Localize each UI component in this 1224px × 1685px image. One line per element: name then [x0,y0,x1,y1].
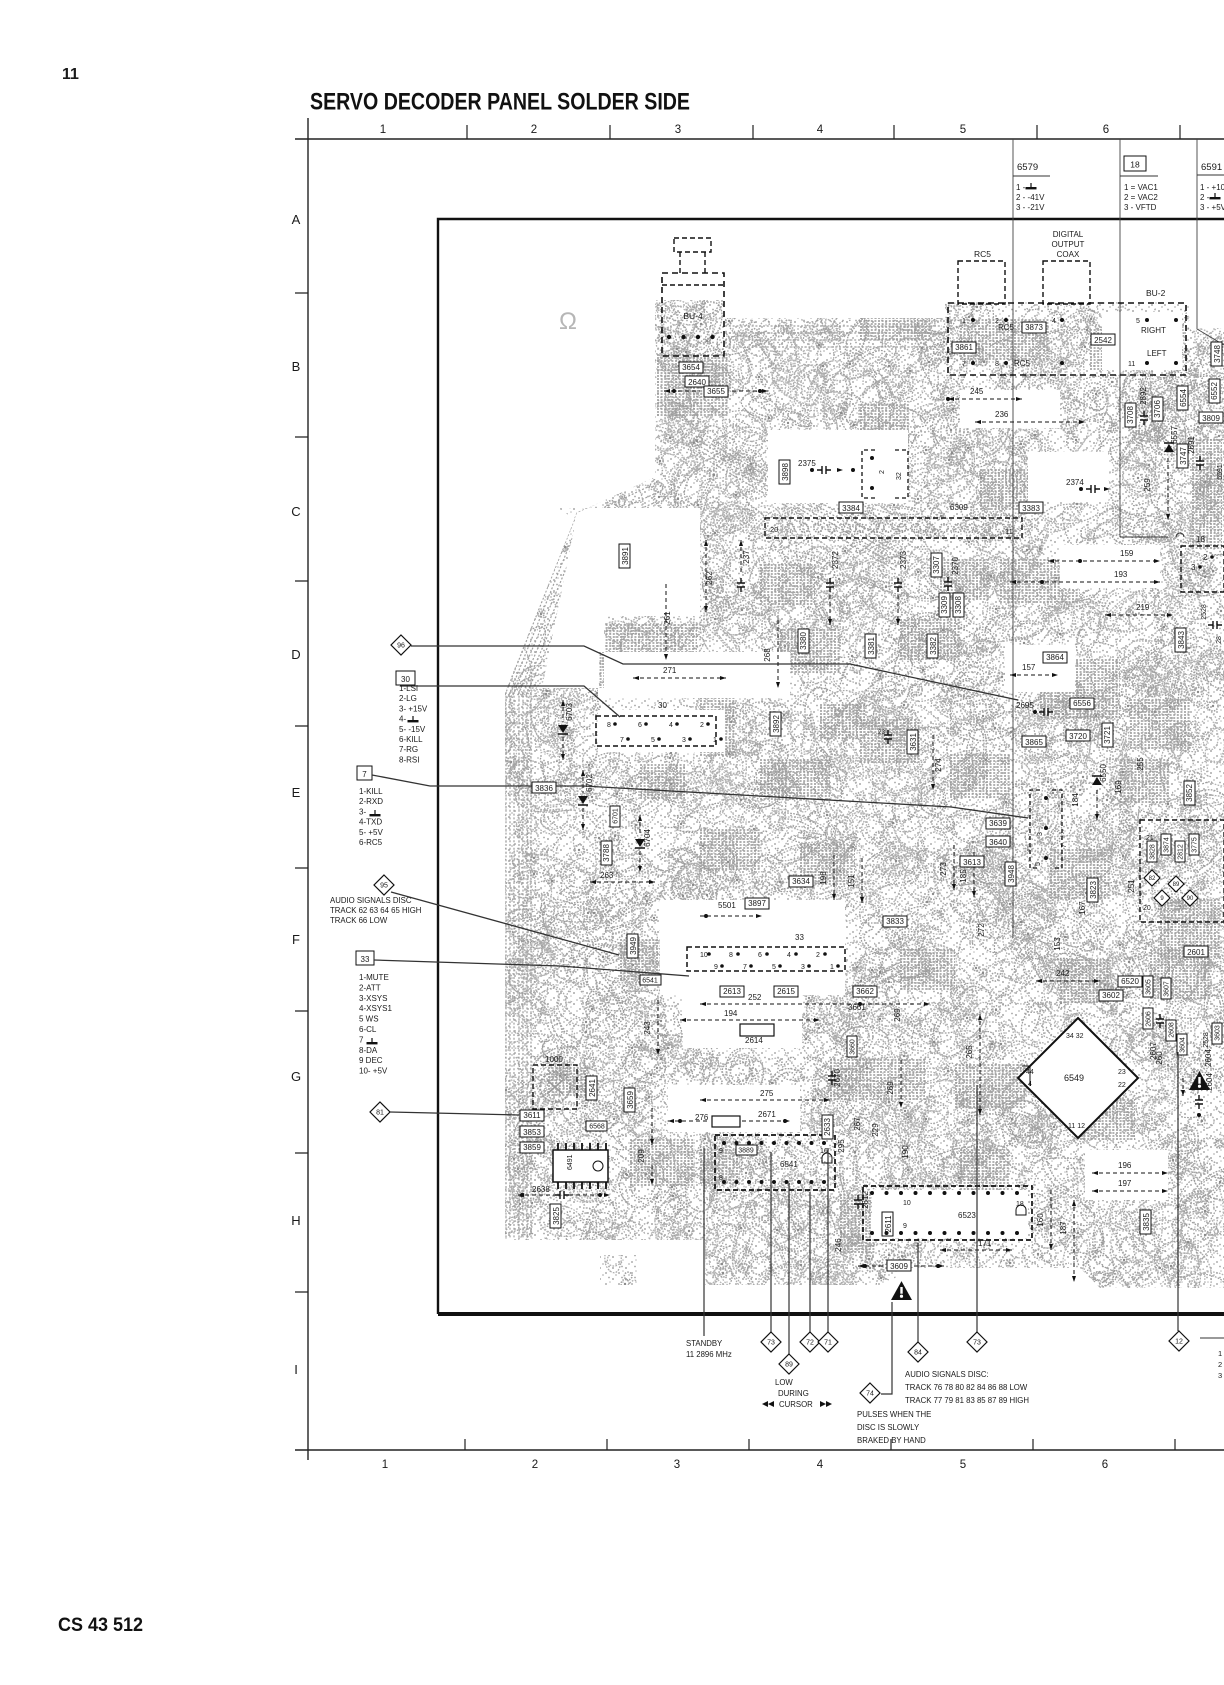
svg-text:2374: 2374 [1066,478,1084,487]
svg-text:2: 2 [1218,1360,1222,1369]
svg-text:3613: 3613 [963,858,981,867]
svg-text:263: 263 [600,871,614,880]
svg-text:B: B [292,359,301,374]
svg-text:C: C [291,504,300,519]
svg-text:271: 271 [663,666,677,675]
svg-text:PULSES WHEN THE: PULSES WHEN THE [857,1410,931,1419]
resistor 3381 [865,634,876,658]
capacitor at 1199 1098 [1195,1095,1203,1109]
svg-text:2691: 2691 [1187,436,1196,454]
svg-text:3825: 3825 [552,1207,561,1225]
svg-text:CS 43 512: CS 43 512 [58,1615,143,1636]
svg-text:3307: 3307 [932,556,941,574]
svg-text:7: 7 [359,1035,364,1044]
svg-text:LEFT: LEFT [1147,349,1167,358]
resistor 3380 [798,629,809,653]
svg-text:3639: 3639 [989,819,1007,828]
node 74 diamond [860,1383,880,1403]
svg-text:1: 1 [382,1459,388,1471]
connector table 7 [357,766,372,780]
svg-text:274: 274 [934,758,943,772]
svg-text:DISC IS SLOWLY: DISC IS SLOWLY [857,1423,920,1432]
svg-text:TRACK 77 79 81 83 85 87 89 HIG: TRACK 77 79 81 83 85 87 89 HIGH [905,1396,1029,1405]
svg-text:2: 2 [1203,553,1208,562]
svg-text:6: 6 [1103,124,1109,136]
svg-text:2: 2 [531,124,537,136]
diode 6704 [635,839,645,847]
svg-text:90: 90 [1187,896,1194,902]
svg-text:2611: 2611 [884,1215,893,1233]
svg-text:A: A [292,212,301,227]
svg-text:2: 2 [816,952,820,959]
resistor 3603 [1212,1023,1222,1044]
svg-text:6568: 6568 [589,1124,605,1131]
connector table 18 [1119,139,1121,537]
right edge partial table [1200,1337,1224,1339]
svg-text:259: 259 [1143,478,1152,492]
resistor 3843 [1175,628,1186,652]
svg-text:6: 6 [638,722,642,729]
svg-text:4-: 4- [399,715,406,724]
svg-text:2608: 2608 [1169,1022,1176,1038]
IC 6523 [863,1186,1032,1240]
svg-text:3-: 3- [359,807,366,816]
svg-text:171: 171 [978,1239,992,1248]
svg-text:3708: 3708 [1126,406,1135,424]
svg-text:3706: 3706 [1153,400,1162,418]
resistor 3825 [550,1204,561,1228]
svg-text:169: 169 [1114,780,1123,794]
svg-text:1 -: 1 - [1016,183,1026,192]
leader to 73 [770,1152,772,1333]
svg-text:209: 209 [637,1149,646,1163]
svg-text:267: 267 [853,1117,862,1131]
resistor 3721 [1102,723,1113,747]
svg-text:187: 187 [1059,1221,1068,1235]
svg-text:3: 3 [801,964,805,971]
svg-text:273: 273 [939,862,948,876]
svg-text:TRACK 62 63 64 65 HIGH: TRACK 62 63 64 65 HIGH [330,906,421,915]
resistor 6568 [586,1121,607,1131]
svg-text:3384: 3384 [842,504,860,513]
svg-text:3: 3 [682,737,686,744]
svg-text:245: 245 [970,387,984,396]
board outline [438,219,1224,1314]
svg-text:3: 3 [1037,832,1044,836]
resistor 3631 [907,730,918,754]
resistor 3639 [986,818,1010,829]
svg-text:3382: 3382 [929,637,938,655]
svg-text:2670: 2670 [833,1069,842,1087]
resistor 3747 [1177,444,1188,468]
resistor 3382 [927,634,938,658]
svg-text:DIGITAL: DIGITAL [1053,230,1084,239]
svg-text:6701: 6701 [613,808,620,824]
diode 6550 [1092,777,1102,785]
svg-text:6541: 6541 [642,978,658,985]
connector table 30 [396,671,415,685]
wire from table 30 [400,686,620,717]
resistor 2611 [882,1212,893,1236]
svg-text:18: 18 [1196,535,1205,544]
resistor 3948 [1005,862,1016,886]
svg-text:H: H [291,1213,300,1228]
svg-text:268: 268 [763,648,772,662]
svg-text:2641: 2641 [588,1079,597,1097]
svg-text:2633: 2633 [823,1118,832,1136]
resistor 6701 [610,806,620,827]
svg-text:72: 72 [806,1340,814,1347]
svg-text:7: 7 [620,737,624,744]
svg-text:I: I [294,1362,298,1377]
svg-text:6557: 6557 [1170,426,1179,444]
svg-text:1000: 1000 [545,1055,563,1064]
svg-text:1: 1 [830,964,834,971]
resistor 3384 [839,502,863,513]
svg-text:7: 7 [962,361,966,368]
connector table 33 [356,951,374,965]
svg-text:1: 1 [962,318,966,325]
svg-text:2614: 2614 [745,1036,763,1045]
resistor 6556 [1070,698,1094,709]
resistor 3864 [1043,652,1067,663]
svg-text:6579: 6579 [1017,162,1038,173]
svg-text:RIGHT: RIGHT [1141,326,1166,335]
svg-text:242: 242 [1056,969,1070,978]
svg-text:11: 11 [1128,361,1135,368]
svg-text:6591: 6591 [1201,162,1222,173]
svg-text:95: 95 [380,883,388,890]
svg-text:1-LSI: 1-LSI [399,684,418,693]
svg-text:96: 96 [397,643,405,650]
svg-text:28: 28 [1216,636,1223,644]
svg-text:OUTPUT: OUTPUT [1052,240,1085,249]
svg-text:6591: 6591 [1217,464,1224,480]
svg-text:3383: 3383 [1022,504,1040,513]
node 12 diamond [1169,1331,1189,1351]
diode 6702 [578,796,588,804]
svg-text:9 DEC: 9 DEC [359,1056,383,1065]
svg-text:6704: 6704 [643,829,652,847]
svg-text:2373: 2373 [899,551,908,569]
svg-text:1-KILL: 1-KILL [359,787,383,796]
svg-text:3864: 3864 [1046,653,1064,662]
svg-text:7: 7 [362,770,367,779]
svg-text:6702: 6702 [585,774,594,792]
svg-text:3892: 3892 [772,715,781,733]
svg-text:151: 151 [847,874,856,888]
node 84 diamond [908,1342,928,1362]
svg-text:229: 229 [871,1123,880,1137]
resistor 3873 [1022,322,1046,333]
resistor 3706 [1152,397,1163,421]
svg-text:1: 1 [713,737,717,744]
resistor 3659 [624,1088,635,1112]
svg-text:2: 2 [700,722,704,729]
svg-text:159: 159 [1120,549,1134,558]
leader to 74 [881,1302,892,1394]
svg-text:1: 1 [1218,1349,1222,1358]
svg-text:246: 246 [834,1238,843,1252]
svg-text:2 = VAC2: 2 = VAC2 [1124,193,1158,202]
svg-text:167: 167 [1078,901,1087,915]
svg-text:SERVO DECODER PANEL SOLDER SID: SERVO DECODER PANEL SOLDER SIDE [310,89,690,116]
svg-text:E: E [292,785,301,800]
svg-text:1: 1 [380,124,386,136]
svg-text:2 -: 2 - [1200,193,1210,202]
wire from table 33 [374,960,689,976]
svg-text:3634: 3634 [792,877,810,886]
svg-text:20: 20 [1143,905,1151,912]
svg-text:11: 11 [1005,527,1013,536]
svg-text:2671: 2671 [758,1110,776,1119]
svg-text:8-DA: 8-DA [359,1046,378,1055]
svg-text:D: D [291,647,300,662]
resistor 3897 [745,898,769,909]
resistor 3654 [679,362,703,373]
svg-text:3823: 3823 [1089,881,1098,899]
resistor 6520 [1118,976,1142,987]
svg-text:269: 269 [886,1081,895,1095]
svg-text:9: 9 [714,964,718,971]
svg-text:2-ATT: 2-ATT [359,983,381,992]
svg-text:3660: 3660 [850,1039,857,1055]
svg-text:3852: 3852 [1185,784,1194,802]
svg-text:1-MUTE: 1-MUTE [359,973,389,982]
svg-text:10: 10 [903,1200,911,1207]
svg-text:265: 265 [965,1045,974,1059]
svg-text:272: 272 [977,923,986,937]
svg-text:6541: 6541 [780,1160,798,1169]
svg-text:255: 255 [1136,757,1145,771]
svg-text:12: 12 [1175,1339,1183,1346]
svg-text:5: 5 [1136,318,1140,325]
svg-text:251: 251 [1127,879,1136,893]
resistor 3655 [704,386,728,397]
svg-text:21: 21 [1146,835,1154,842]
svg-text:DURING: DURING [778,1389,809,1398]
svg-text:AUDIO SIGNALS DISC:: AUDIO SIGNALS DISC: [905,1370,989,1379]
resistor 3949 [627,934,638,958]
svg-text:190: 190 [901,1145,910,1159]
svg-text:30: 30 [658,701,667,710]
svg-text:82: 82 [1149,876,1156,882]
svg-text:3: 3 [1218,1371,1222,1380]
svg-text:6: 6 [758,952,762,959]
resistor 2606 [1143,1008,1153,1029]
svg-text:2604: 2604 [1205,1073,1214,1091]
svg-text:3609: 3609 [890,1262,908,1271]
svg-text:3788: 3788 [602,844,611,862]
svg-text:3835: 3835 [1142,1213,1151,1231]
svg-text:2892: 2892 [1139,387,1148,405]
svg-text:3720: 3720 [1069,732,1087,741]
resistor 2542 [1091,334,1115,345]
svg-text:2372: 2372 [831,551,840,569]
svg-text:269: 269 [893,1008,902,1022]
resistor 3874 [1161,834,1171,855]
svg-text:2615: 2615 [777,987,795,996]
svg-text:3602: 3602 [1102,991,1120,1000]
svg-text:2370: 2370 [951,557,960,575]
svg-text:STANDBY: STANDBY [686,1339,723,1348]
svg-text:4: 4 [817,124,824,136]
connector 2-32 box [862,450,908,498]
svg-text:3 - VFTD: 3 - VFTD [1124,203,1157,212]
svg-text:33: 33 [361,955,370,964]
connector strip 20-11 [765,518,1022,538]
resistor 2633 [822,1115,833,1139]
svg-text:6491: 6491 [567,1154,574,1170]
svg-text:3948: 3948 [1007,865,1016,883]
svg-text:6-KILL: 6-KILL [399,735,423,744]
svg-text:3828: 3828 [1150,844,1157,860]
svg-text:185: 185 [959,869,968,883]
IC 6549 diamond outline [1018,1018,1138,1138]
bottom ruler line [295,1449,1224,1451]
svg-text:3874: 3874 [1164,837,1171,853]
connector 3-5-7 box [1030,790,1062,868]
svg-text:89: 89 [785,1362,793,1369]
svg-text:6556: 6556 [1073,699,1091,708]
svg-text:3: 3 [675,124,681,136]
svg-text:3 - -21V: 3 - -21V [1016,203,1045,212]
svg-text:5: 5 [960,124,966,136]
resistor 3613 [960,856,984,867]
resistor 2640 [685,376,709,387]
svg-text:6703: 6703 [565,703,574,721]
svg-text:CURSOR: CURSOR [779,1400,813,1409]
svg-text:2812: 2812 [1178,844,1185,860]
resistor 3634 [789,876,813,887]
svg-text:236: 236 [995,410,1009,419]
node 72 diamond [800,1332,820,1352]
resistor 2615 [774,986,798,997]
svg-text:73: 73 [973,1340,981,1347]
resistor 3861 [952,342,976,353]
leader to 73b [976,1085,978,1332]
svg-text:3605: 3605 [1146,979,1153,995]
svg-text:3- +15V: 3- +15V [399,704,428,713]
resistor 3775 [1189,834,1199,855]
svg-text:260: 260 [1155,1051,1164,1065]
node 81 diamond [370,1102,390,1122]
left ruler line [307,118,309,1460]
svg-text:295: 295 [837,1139,846,1153]
resistor 3309 [939,593,950,617]
resistor 3708 [1125,403,1136,427]
svg-text:4-TXD: 4-TXD [359,818,382,827]
svg-text:193: 193 [1114,570,1128,579]
svg-text:3603: 3603 [1215,1025,1222,1041]
svg-text:2601: 2601 [1187,948,1205,957]
wire from node 95 [391,892,619,955]
top ruler ticks [467,125,1180,139]
svg-text:BU-2: BU-2 [1146,288,1166,298]
node 9x diamond [1154,890,1170,906]
svg-text:7: 7 [1061,844,1068,848]
svg-text:81: 81 [376,1110,384,1117]
resistor 3835 [1140,1210,1151,1234]
svg-text:11 2896 MHz: 11 2896 MHz [686,1350,732,1359]
node 90 diamond [1182,890,1198,906]
leader to 84 [917,1243,919,1342]
svg-text:5 WS: 5 WS [359,1015,379,1024]
connector box right edge [1181,546,1224,592]
svg-text:RC5: RC5 [1014,359,1031,368]
warning triangle bottom [891,1281,912,1300]
svg-text:4: 4 [1052,318,1056,325]
svg-text:3861: 3861 [955,343,973,352]
connector coax box [1043,261,1090,304]
resistor 3720 [1066,730,1090,741]
svg-text:6520: 6520 [1121,977,1139,986]
svg-text:2695: 2695 [1016,701,1034,710]
resistor 3640 [986,836,1010,847]
diode 6703 [558,725,568,733]
IC 6541 [715,1135,835,1190]
svg-text:6309: 6309 [950,503,968,512]
svg-text:275: 275 [760,1089,774,1098]
leader to 71 [827,1148,829,1333]
resistor 2812 [1175,841,1185,862]
svg-text:198: 198 [819,871,828,885]
IC 6491 [553,1150,608,1182]
svg-text:6-RC5: 6-RC5 [359,838,383,847]
resistor 6554 [1177,386,1188,410]
svg-text:3721: 3721 [1103,726,1112,744]
svg-text:157: 157 [1022,663,1036,672]
resistor 3865 [1022,736,1046,747]
resistor 3308 [953,593,964,617]
resistor 2613 [720,986,744,997]
svg-text:3889: 3889 [738,1148,754,1155]
resistor 3891 [619,544,630,568]
svg-text:3654: 3654 [682,363,700,372]
svg-text:4-XSYS1: 4-XSYS1 [359,1004,392,1013]
node 89 diamond [779,1354,799,1374]
left ruler ticks [295,293,308,1292]
leader to standby [703,1148,705,1336]
svg-text:5- +5V: 5- +5V [359,828,383,837]
svg-text:6550: 6550 [1099,764,1108,782]
resistor 2601 [1184,946,1208,957]
svg-text:196: 196 [1118,1161,1132,1170]
svg-text:3836: 3836 [535,784,553,793]
leader to 72 [809,1192,811,1333]
connector table 6591 [1197,139,1224,345]
svg-text:2613: 2613 [723,987,741,996]
svg-text:89: 89 [1173,882,1180,888]
svg-text:197: 197 [1118,1179,1132,1188]
resistor 3383 [1019,502,1043,513]
resistor 3809 [1199,412,1223,423]
svg-text:6523: 6523 [958,1211,976,1220]
svg-text:5- -15V: 5- -15V [399,725,426,734]
wire from node 96 [411,646,1018,700]
svg-text:2638: 2638 [532,1185,550,1194]
svg-text:3655: 3655 [707,387,725,396]
resistor 3605 [1143,976,1153,997]
svg-text:74: 74 [866,1391,874,1398]
svg-text:184: 184 [1071,793,1080,807]
resistor 3604 [1177,1034,1187,1055]
svg-text:3 - +5V: 3 - +5V [1200,203,1224,212]
svg-text:6: 6 [1102,1459,1108,1471]
resistor 3898 [779,460,790,484]
svg-text:3873: 3873 [1025,323,1043,332]
svg-text:3859: 3859 [523,1143,541,1152]
